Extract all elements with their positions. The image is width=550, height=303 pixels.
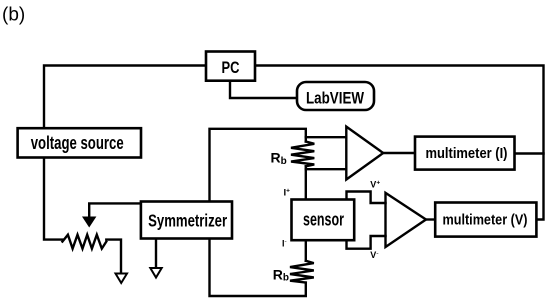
svg-text:sensor: sensor: [303, 210, 344, 230]
svg-text:LabVIEW: LabVIEW: [306, 89, 365, 108]
svg-text:voltage source: voltage source: [31, 133, 124, 153]
svg-text:multimeter (I): multimeter (I): [426, 145, 508, 162]
svg-text:(b): (b): [2, 5, 25, 26]
svg-text:PC: PC: [222, 58, 240, 77]
svg-text:multimeter (V): multimeter (V): [443, 212, 528, 229]
svg-text:Symmetrizer: Symmetrizer: [148, 211, 227, 231]
